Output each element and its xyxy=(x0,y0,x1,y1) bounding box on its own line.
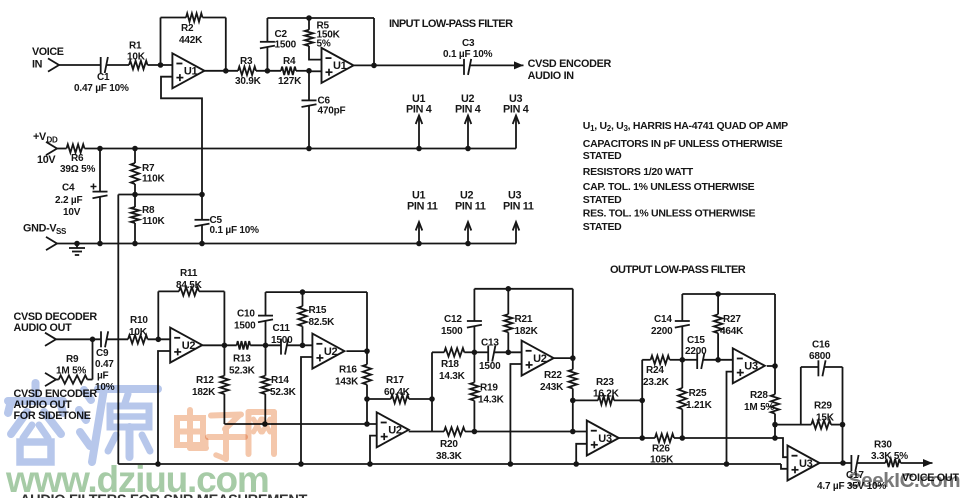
svg-text:CVSD ENCODER: CVSD ENCODER xyxy=(528,58,612,70)
resistor R5 150K 5% xyxy=(305,18,341,60)
node junction R22 R23 xyxy=(570,398,576,404)
node junction R17 R18 column xyxy=(429,396,435,402)
capacitor C16 6800 feedback xyxy=(801,340,843,425)
svg-text:C16: C16 xyxy=(812,340,830,351)
svg-text:R27: R27 xyxy=(723,314,741,325)
node junction R16 column on minus row xyxy=(364,421,370,427)
node GND rail junction U2 pin11 arrow xyxy=(465,241,471,247)
svg-text:R6: R6 xyxy=(71,153,84,164)
svg-text:R14: R14 xyxy=(271,375,289,386)
wire input to C9 xyxy=(56,338,100,340)
resistor R6 39ohm 5% xyxy=(57,144,95,175)
node GND rail junction R8 xyxy=(132,241,138,247)
wire U1b output to C3 xyxy=(354,64,464,66)
resistor R20 38.3K xyxy=(436,427,465,462)
wire R2 to U1 output xyxy=(203,17,226,19)
node junction R15 top xyxy=(300,289,306,295)
node CVSD ENCODER AUDIO IN label xyxy=(528,58,612,82)
node junction R16 R17 xyxy=(364,396,370,402)
svg-text:C14: C14 xyxy=(654,314,672,325)
wire U3a output R26 row xyxy=(619,437,655,439)
op-amp U2 third section xyxy=(377,412,409,447)
node bias rail junction U3b plus xyxy=(724,461,730,467)
svg-text:C15: C15 xyxy=(687,335,705,346)
resistor R2 442K feedback xyxy=(179,13,203,46)
svg-text:464K: 464K xyxy=(720,326,744,337)
wire U3c output row xyxy=(820,462,852,464)
svg-text:10V: 10V xyxy=(63,207,81,218)
svg-text:442K: 442K xyxy=(179,35,203,46)
node OUTPUT LOW-PASS FILTER title xyxy=(610,264,746,276)
node junction output C16 bracket xyxy=(840,460,846,466)
wire C16 bracket right column xyxy=(842,367,844,463)
svg-text:0.47: 0.47 xyxy=(95,359,114,370)
svg-text:OUTPUT LOW-PASS FILTER: OUTPUT LOW-PASS FILTER xyxy=(610,264,746,276)
svg-text:C9: C9 xyxy=(96,348,109,359)
svg-text:U3: U3 xyxy=(744,361,758,373)
wire stage6 top rail xyxy=(682,293,775,295)
svg-text:1M 5%: 1M 5% xyxy=(56,366,86,377)
wire U1 output to R3 xyxy=(204,70,238,72)
wire U2c plus riser to bias rail xyxy=(370,436,377,464)
wire GND rail xyxy=(57,243,516,245)
node junction R18 C12 C13 R19 xyxy=(472,350,478,356)
svg-text:AUDIO OUT: AUDIO OUT xyxy=(14,322,73,334)
svg-text:R29: R29 xyxy=(814,401,832,412)
svg-text:R12: R12 xyxy=(196,375,214,386)
resistor R14 52.3K xyxy=(261,345,297,424)
wire column R22 to U3a minus row xyxy=(572,400,574,431)
svg-text:182K: 182K xyxy=(515,326,539,337)
resistor R29 15K xyxy=(775,401,843,429)
node junction R27 top xyxy=(715,291,721,297)
svg-text:1500: 1500 xyxy=(234,321,256,332)
svg-text:23.2K: 23.2K xyxy=(643,377,670,388)
wire R13 to node xyxy=(250,344,281,346)
node junction column minus row xyxy=(570,429,576,435)
resistor R25 1.21K xyxy=(678,360,713,438)
svg-text:R4: R4 xyxy=(283,56,296,67)
svg-text:60.4K: 60.4K xyxy=(384,387,411,398)
svg-text:R23: R23 xyxy=(596,377,614,388)
node junction R19 on R20 row xyxy=(472,429,478,435)
resistor R27 464K xyxy=(714,294,744,360)
svg-text:470pF: 470pF xyxy=(318,106,346,117)
svg-text:R30: R30 xyxy=(874,440,892,451)
svg-text:110K: 110K xyxy=(142,216,166,227)
wire column R23 to R24 row xyxy=(641,360,643,438)
svg-text:PIN 11: PIN 11 xyxy=(455,201,486,213)
capacitor C15 2200 xyxy=(682,335,733,369)
svg-text:R7: R7 xyxy=(142,163,155,174)
node watermark chinese character dian xyxy=(177,410,206,448)
svg-text:PIN 4: PIN 4 xyxy=(503,104,529,116)
svg-text:RESISTORS 1/20 WATT: RESISTORS 1/20 WATT xyxy=(583,166,694,178)
svg-text:5%: 5% xyxy=(317,39,331,50)
capacitor C10 1500 xyxy=(234,292,273,345)
svg-text:R10: R10 xyxy=(130,315,148,326)
wire VOICE IN to C1 xyxy=(59,64,100,66)
wire C3 to CVSD encoder audio in arrow xyxy=(470,64,524,66)
wire U2b output xyxy=(346,350,367,352)
svg-text:R25: R25 xyxy=(689,388,707,399)
resistor R7 110K xyxy=(131,149,166,195)
wire U2d plus riser to bias rail xyxy=(510,364,521,464)
capacitor C1 0.47uF xyxy=(74,57,129,94)
svg-text:C2: C2 xyxy=(275,29,288,40)
node junction bracket R29 xyxy=(840,422,846,428)
node U2b output junction xyxy=(364,348,370,354)
resistor R30 3.3K 5% xyxy=(871,440,908,468)
svg-text:R21: R21 xyxy=(515,314,533,325)
svg-text:2.2 µF: 2.2 µF xyxy=(55,195,82,206)
svg-text:R22: R22 xyxy=(544,370,562,381)
svg-text:INPUT LOW-PASS FILTER: INPUT LOW-PASS FILTER xyxy=(389,18,513,30)
svg-text:R18: R18 xyxy=(441,359,459,370)
svg-text:C13: C13 xyxy=(481,338,499,349)
svg-text:1500: 1500 xyxy=(441,326,463,337)
svg-text:14.3K: 14.3K xyxy=(478,395,505,406)
node U2 PIN 11 arrow xyxy=(455,190,486,244)
node U1 PIN 4 arrow xyxy=(406,93,432,149)
svg-text:µF: µF xyxy=(97,371,109,382)
svg-text:R20: R20 xyxy=(440,439,458,450)
wire U2c minus row xyxy=(224,423,376,425)
svg-text:STATED: STATED xyxy=(583,221,622,233)
wire stage2 top rail xyxy=(266,291,368,293)
node +VDD input terminal xyxy=(33,131,58,166)
svg-text:PIN 11: PIN 11 xyxy=(407,201,438,213)
svg-text:10V: 10V xyxy=(37,154,56,166)
node watermark chinese character yuan xyxy=(79,389,158,462)
resistor R4 127K xyxy=(278,56,302,87)
svg-text:39Ω 5%: 39Ω 5% xyxy=(60,164,95,175)
capacitor C4 2.2uF electrolytic xyxy=(55,149,108,244)
svg-text:STATED: STATED xyxy=(583,194,622,206)
svg-text:U3: U3 xyxy=(598,433,612,445)
node junction R28 R29 row xyxy=(772,422,778,428)
op-amp U1 second section xyxy=(322,48,354,83)
node U3b output junction xyxy=(772,363,778,369)
svg-text:0.1 µF 10%: 0.1 µF 10% xyxy=(443,49,493,60)
svg-text:DD: DD xyxy=(47,136,58,145)
svg-text:1.21K: 1.21K xyxy=(686,400,713,411)
svg-text:U2: U2 xyxy=(388,425,402,437)
node U2 PIN 4 arrow xyxy=(455,93,481,149)
svg-text:R2: R2 xyxy=(181,23,194,34)
node junction R15 U2b minus xyxy=(300,343,306,349)
svg-text:14.3K: 14.3K xyxy=(439,371,466,382)
svg-text:30.9K: 30.9K xyxy=(235,76,262,87)
wire top rail of second filter stage xyxy=(267,17,374,19)
node junction R25 on R26 row xyxy=(680,435,686,441)
svg-text:PIN 4: PIN 4 xyxy=(406,104,432,116)
svg-text:82.5K: 82.5K xyxy=(309,317,336,328)
wire stage4 top rail xyxy=(474,288,572,290)
wire U1 plus input bias path xyxy=(161,77,202,195)
svg-text:AUDIO IN: AUDIO IN xyxy=(528,70,575,82)
svg-text:2200: 2200 xyxy=(685,346,707,357)
wire R3 to R4 xyxy=(256,70,281,72)
svg-text:R9: R9 xyxy=(66,354,79,365)
node GND-VSS input terminal xyxy=(23,223,67,251)
svg-text:U1: U1 xyxy=(184,66,198,78)
capacitor C3 0.1uF xyxy=(443,38,493,75)
resistor R17 60.4K xyxy=(367,375,432,403)
node junction R4 C6 plus input xyxy=(306,68,312,74)
node U2a minus junction xyxy=(156,337,162,343)
svg-text:1500: 1500 xyxy=(479,361,501,372)
svg-text:C12: C12 xyxy=(444,314,462,325)
resistor R19 14.3K xyxy=(470,352,504,431)
svg-text:243K: 243K xyxy=(540,382,564,393)
wire R16 column to minus row xyxy=(366,399,368,424)
wire R30 to VOICE OUT arrow xyxy=(901,462,933,464)
wire C9 to R10 xyxy=(107,338,128,340)
node watermark SeekIC.com xyxy=(848,469,960,492)
node junction R3 R4 C2 xyxy=(265,68,271,74)
svg-text:143K: 143K xyxy=(335,377,359,388)
node bias rail junction U2d plus xyxy=(508,461,514,467)
svg-text:U1, U2, U3, HARRIS HA-4741 QUA: U1, U2, U3, HARRIS HA-4741 QUAD OP AMP xyxy=(583,120,788,133)
svg-text:SS: SS xyxy=(56,227,67,236)
svg-text:PIN 4: PIN 4 xyxy=(455,104,481,116)
wire U3b plus riser to bias rail xyxy=(727,372,733,464)
svg-text:127K: 127K xyxy=(278,76,302,87)
resistor R8 110K xyxy=(131,195,166,244)
wire U3c minus jog xyxy=(775,438,788,457)
svg-text:GND-V: GND-V xyxy=(23,223,57,235)
node VOICE OUT label xyxy=(902,472,959,484)
node bottom caption clipped xyxy=(20,493,308,503)
svg-text:15K: 15K xyxy=(816,413,835,424)
svg-text:110K: 110K xyxy=(142,174,166,185)
svg-text:C3: C3 xyxy=(462,38,475,49)
node watermark www.dziuu.com xyxy=(5,459,269,500)
node bias rail junction U2b plus xyxy=(298,461,304,467)
node watermark chinese character rong xyxy=(8,383,63,462)
wire +VDD rail xyxy=(85,148,517,150)
node VDD rail junction U2 pin4 arrow xyxy=(465,146,471,152)
svg-text:R8: R8 xyxy=(142,205,155,216)
capacitor C5 0.1uF xyxy=(195,195,260,244)
wire bias divider row xyxy=(118,194,202,196)
op-amp U3 second section xyxy=(733,348,765,383)
node watermark chinese character wang xyxy=(249,412,275,454)
svg-text:+V: +V xyxy=(33,131,47,143)
capacitor C11 1500 xyxy=(271,323,293,355)
wire bias feed column down to bottom rail xyxy=(117,195,119,465)
svg-text:3.3K 5%: 3.3K 5% xyxy=(871,451,908,462)
svg-text:2200: 2200 xyxy=(651,326,673,337)
svg-text:182K: 182K xyxy=(192,387,216,398)
resistor R21 182K xyxy=(504,289,538,353)
wire R4 to U1b plus input xyxy=(296,70,309,72)
wire feedback riser to R2 xyxy=(160,18,162,66)
svg-text:STATED: STATED xyxy=(583,150,622,162)
node U3 PIN 4 arrow xyxy=(503,93,529,149)
svg-text:C11: C11 xyxy=(273,323,291,334)
svg-text:52.3K: 52.3K xyxy=(229,366,256,377)
capacitor C9 0.47uF xyxy=(95,331,115,393)
svg-text:SeekIC.com: SeekIC.com xyxy=(848,469,960,492)
svg-text:R19: R19 xyxy=(480,383,498,394)
node VOICE IN input terminal xyxy=(32,46,64,72)
wire column to R26 row end xyxy=(774,425,776,438)
svg-text:C4: C4 xyxy=(62,183,75,194)
node U2d output junction xyxy=(570,355,576,361)
svg-text:52.3K: 52.3K xyxy=(270,387,297,398)
capacitor C12 1500 xyxy=(441,289,482,353)
node junction R23 column xyxy=(639,398,645,404)
capacitor C13 1500 xyxy=(474,338,521,373)
node junction at U1 minus xyxy=(158,62,164,68)
node junction R13 C10 C11 R14 xyxy=(263,343,269,349)
wire column R18 to R20 row xyxy=(431,352,433,431)
svg-text:1500: 1500 xyxy=(271,335,293,346)
capacitor C6 470pF xyxy=(302,71,346,149)
op-amp U3 first section xyxy=(587,421,619,456)
node U1b output junction xyxy=(371,63,377,69)
svg-text:R26: R26 xyxy=(652,444,670,455)
svg-text:1500: 1500 xyxy=(275,40,297,51)
node VDD rail junction C4 xyxy=(97,146,103,152)
node junction R21 top xyxy=(506,286,512,292)
wire C1 to R1 xyxy=(106,64,129,66)
op-amp U2 first section xyxy=(170,328,202,363)
svg-text:C10: C10 xyxy=(237,309,255,320)
svg-text:U3: U3 xyxy=(799,458,813,470)
svg-text:IN: IN xyxy=(32,59,43,71)
resistor R23 16.2K xyxy=(573,377,642,405)
node VDD rail junction U1 pin4 arrow xyxy=(416,146,422,152)
wire U3b output xyxy=(767,365,775,367)
wire U2a output row xyxy=(202,344,237,346)
resistor R1 10K xyxy=(127,41,148,70)
node CVSD DECODER AUDIO OUT input terminal xyxy=(14,311,98,346)
node GND rail junction C5 xyxy=(199,241,205,247)
resistor R16 143K xyxy=(335,351,371,399)
svg-text:VOICE: VOICE xyxy=(32,46,64,58)
node junction input R9 xyxy=(90,337,96,343)
wire C17 to R30 xyxy=(857,462,885,464)
wire bias rail bottom xyxy=(118,463,781,465)
svg-text:R16: R16 xyxy=(339,365,357,376)
wire U2b plus riser to bias rail xyxy=(301,357,312,464)
node U1 PIN 11 arrow xyxy=(407,190,438,244)
svg-text:10K: 10K xyxy=(129,327,148,338)
resistor R3 30.9K xyxy=(235,56,262,87)
wire U2d output xyxy=(554,357,573,359)
node junction R21 U2d minus xyxy=(506,350,512,356)
node bias rail junction U2a plus xyxy=(155,461,161,467)
svg-text:U2: U2 xyxy=(182,340,196,352)
svg-text:PIN 11: PIN 11 xyxy=(503,201,534,213)
wire U3a plus riser to bias rail xyxy=(576,444,587,464)
resistor R13 52.3K xyxy=(229,341,256,376)
wire R20 row U2c output to U3a minus xyxy=(409,431,444,433)
resistor R15 82.5K xyxy=(298,292,335,345)
svg-text:R3: R3 xyxy=(240,56,253,67)
node VDD rail junction C6 xyxy=(306,146,312,152)
node junction R23 column on R26 row xyxy=(639,435,645,441)
node notes text block xyxy=(583,120,788,233)
node GND rail junction C4 xyxy=(97,241,103,247)
node junction R27 U3b minus xyxy=(715,357,721,363)
op-amp U2 second section xyxy=(312,334,344,369)
wire R1 to U1 inverting input xyxy=(148,64,173,66)
wire R10 to U2 inverting input xyxy=(148,338,171,340)
svg-text:R28: R28 xyxy=(750,390,768,401)
svg-text:CAPACITORS IN pF UNLESS OTHERW: CAPACITORS IN pF UNLESS OTHERWISE xyxy=(583,138,783,150)
resistor R11 84.5K feedback xyxy=(158,268,224,345)
op-amp U1 first section xyxy=(172,53,204,88)
node CVSD ENCODER AUDIO OUT FOR SIDETONE terminal xyxy=(14,373,98,422)
svg-text:U2: U2 xyxy=(324,346,338,358)
node junction R7 R8 xyxy=(132,192,138,198)
svg-text:RES. TOL. 1% UNLESS OTHERWISE: RES. TOL. 1% UNLESS OTHERWISE xyxy=(583,208,756,220)
resistor R24 23.2K xyxy=(642,356,682,388)
resistor R9 1M 5% sidetone branch xyxy=(56,339,93,383)
resistor R28 1M 5% xyxy=(744,366,779,425)
resistor R12 182K xyxy=(192,345,229,424)
svg-text:16.2K: 16.2K xyxy=(593,389,620,400)
resistor R26 105K xyxy=(650,434,674,466)
svg-text:AUDIO FILTERS FOR SNR MEASUREM: AUDIO FILTERS FOR SNR MEASUREMENT xyxy=(20,493,308,499)
svg-text:R24: R24 xyxy=(646,365,664,376)
svg-text:38.3K: 38.3K xyxy=(436,451,463,462)
node junction R24 C14 C15 R25 xyxy=(680,357,686,363)
wire C11 to U2b minus xyxy=(287,344,313,346)
node GND rail junction U1 pin11 arrow xyxy=(416,241,422,247)
node bias rail junction U2c plus xyxy=(367,461,373,467)
svg-text:R11: R11 xyxy=(180,268,198,279)
svg-text:R1: R1 xyxy=(129,41,142,52)
node INPUT LOW-PASS FILTER title xyxy=(389,18,513,30)
svg-text:R13: R13 xyxy=(233,354,251,365)
svg-text:U2: U2 xyxy=(533,353,547,365)
node junction R26 row end xyxy=(772,435,778,441)
node U3 PIN 11 arrow xyxy=(503,190,534,244)
ground symbol xyxy=(69,241,85,255)
node junction R14 on minus row xyxy=(262,421,268,427)
node bias rail junction U3a plus xyxy=(573,461,579,467)
node VDD rail junction R7 xyxy=(132,146,138,152)
capacitor C17 4.7uF xyxy=(817,455,886,492)
node U1 output junction xyxy=(223,68,229,74)
node U2a output junction xyxy=(222,343,228,349)
svg-text:0.47 µF 10%: 0.47 µF 10% xyxy=(74,83,129,94)
op-amp U3 third section xyxy=(788,446,820,481)
svg-text:6800: 6800 xyxy=(809,351,831,362)
node junction bias row C5 xyxy=(199,192,205,198)
resistor R22 243K xyxy=(540,358,577,400)
capacitor C2 1500 xyxy=(260,18,297,71)
svg-text:U1: U1 xyxy=(333,60,347,72)
svg-text:84.5K: 84.5K xyxy=(176,280,203,291)
capacitor C14 2200 xyxy=(651,294,690,360)
wire U2a plus riser to bias rail xyxy=(158,351,170,464)
svg-text:10K: 10K xyxy=(127,52,146,63)
svg-text:C1: C1 xyxy=(97,72,110,83)
svg-text:CAP. TOL. 1% UNLESS OTHERWISE: CAP. TOL. 1% UNLESS OTHERWISE xyxy=(583,181,755,193)
svg-text:0.1 µF 10%: 0.1 µF 10% xyxy=(210,225,260,236)
node R5 top rail junction xyxy=(306,15,312,21)
svg-text:1M 5%: 1M 5% xyxy=(744,402,774,413)
resistor R18 14.3K xyxy=(432,348,474,382)
node watermark chinese character zi xyxy=(208,415,245,460)
op-amp U2 fourth section xyxy=(522,341,554,376)
